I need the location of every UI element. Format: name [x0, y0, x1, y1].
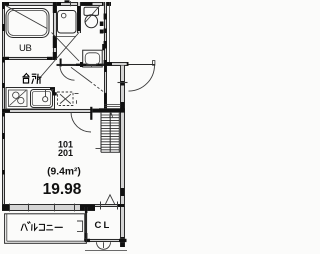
svg-text:UB: UB	[19, 43, 31, 54]
svg-text:19.98: 19.98	[43, 181, 82, 198]
svg-text:(9.4m²): (9.4m²)	[47, 166, 81, 177]
svg-text:201: 201	[58, 148, 73, 158]
svg-text:CL: CL	[94, 220, 111, 231]
